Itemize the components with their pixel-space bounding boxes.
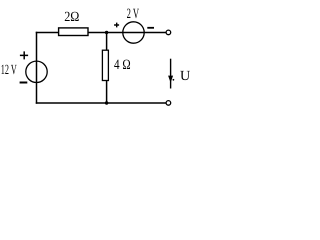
- wire: node A down to 4Ω resistor: [106, 33, 108, 51]
- value label 2Ω: [64, 10, 79, 25]
- wire: 2V source to top output terminal: [144, 32, 166, 34]
- svg-text:4 Ω: 4 Ω: [114, 57, 131, 73]
- svg-text:2 V: 2 V: [127, 6, 140, 22]
- polarity - of 12V source: [20, 82, 28, 84]
- wire: top-left segment from left rail to resistor: [36, 32, 59, 34]
- svg-text:U: U: [180, 69, 190, 84]
- svg-text:2Ω: 2Ω: [64, 10, 79, 25]
- wire: bottom rail: [36, 102, 166, 104]
- node A junction dot (top): [105, 31, 108, 34]
- resistor 2Ω (body): [59, 28, 88, 36]
- wire: left vertical rail through 12V source: [36, 32, 38, 104]
- voltage source 2V (circle): [123, 22, 144, 43]
- wire: resistor to node A: [88, 32, 123, 34]
- voltage source 12V (circle): [26, 61, 47, 82]
- wire: 4Ω resistor down to bottom rail: [106, 81, 108, 104]
- value label 12 V: [1, 63, 17, 78]
- value label 4 Ω: [114, 57, 131, 73]
- terminal (top, open circle): [166, 30, 171, 35]
- polarity - of 2V source: [147, 27, 154, 29]
- voltage arrow U (downward): [168, 59, 174, 89]
- polarity + of 12V source: [20, 51, 28, 59]
- svg-text:12 V: 12 V: [1, 63, 17, 78]
- junction dot (bottom): [105, 101, 108, 104]
- net label U: [180, 69, 190, 84]
- value label 2 V: [127, 6, 140, 22]
- terminal (bottom, open circle): [166, 101, 171, 106]
- resistor 4Ω (body): [102, 50, 108, 80]
- polarity + of 2V source: [114, 23, 119, 28]
